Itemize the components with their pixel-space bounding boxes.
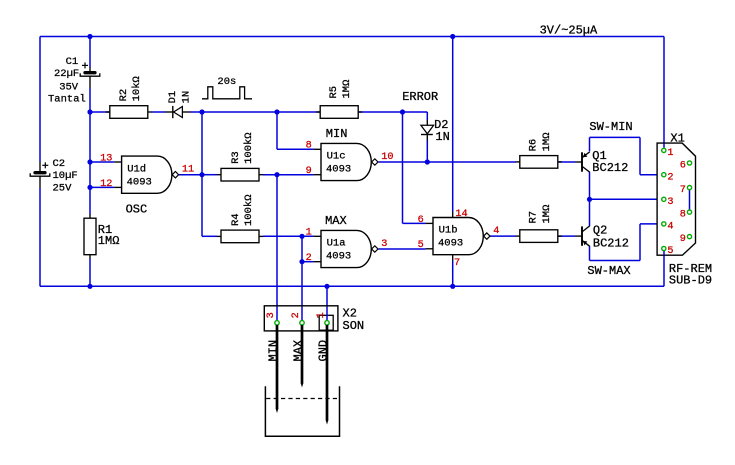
svg-text:1N: 1N: [435, 130, 449, 144]
svg-text:5: 5: [418, 240, 424, 251]
svg-text:12: 12: [100, 179, 112, 190]
svg-text:7: 7: [680, 185, 686, 196]
svg-text:5: 5: [667, 246, 673, 257]
svg-text:SW-MIN: SW-MIN: [589, 120, 632, 134]
svg-text:SON: SON: [343, 319, 365, 333]
svg-text:MIN: MIN: [326, 127, 348, 141]
svg-text:SUB-D9: SUB-D9: [669, 274, 712, 288]
svg-text:1N: 1N: [180, 91, 192, 104]
svg-text:3: 3: [381, 239, 387, 250]
svg-text:4093: 4093: [127, 176, 152, 188]
svg-text:13: 13: [100, 153, 112, 164]
svg-text:MAX: MAX: [325, 214, 347, 228]
svg-text:6: 6: [418, 215, 424, 226]
svg-text:7: 7: [454, 258, 460, 269]
svg-text:D1: D1: [167, 91, 179, 104]
svg-text:C1: C1: [66, 56, 79, 68]
svg-text:U1b: U1b: [439, 225, 458, 237]
svg-text:1: 1: [306, 228, 312, 239]
svg-text:R3: R3: [230, 151, 242, 164]
svg-text:R6: R6: [528, 139, 540, 152]
svg-text:X1: X1: [670, 132, 684, 146]
svg-text:OSC: OSC: [126, 203, 148, 217]
svg-text:3V/~25µA: 3V/~25µA: [540, 23, 598, 37]
svg-text:9: 9: [306, 166, 312, 177]
svg-text:100kΩ: 100kΩ: [243, 132, 255, 164]
svg-text:1MΩ: 1MΩ: [541, 132, 553, 151]
svg-text:4: 4: [667, 222, 673, 233]
svg-text:C2: C2: [53, 158, 66, 170]
svg-text:1MΩ: 1MΩ: [541, 205, 553, 224]
svg-text:2: 2: [667, 172, 673, 183]
svg-text:U1a: U1a: [327, 238, 346, 250]
svg-text:U1c: U1c: [327, 151, 346, 163]
svg-text:MAX: MAX: [291, 340, 305, 362]
svg-text:10: 10: [381, 152, 393, 163]
svg-text:8: 8: [680, 210, 686, 221]
svg-text:4093: 4093: [438, 238, 463, 250]
svg-text:1MΩ: 1MΩ: [341, 80, 353, 99]
svg-text:11: 11: [182, 165, 194, 176]
svg-text:20s: 20s: [217, 76, 236, 88]
svg-text:MIN: MIN: [266, 340, 280, 362]
svg-text:1: 1: [316, 312, 327, 318]
svg-text:R4: R4: [230, 213, 242, 226]
svg-text:25V: 25V: [53, 182, 73, 194]
svg-text:2: 2: [291, 312, 302, 318]
svg-text:R7: R7: [528, 211, 540, 224]
svg-text:14: 14: [455, 209, 467, 220]
svg-text:GND: GND: [316, 340, 330, 362]
svg-text:SW-MAX: SW-MAX: [587, 264, 630, 278]
svg-text:R5: R5: [328, 86, 340, 99]
svg-text:10kΩ: 10kΩ: [131, 76, 143, 101]
svg-text:8: 8: [306, 141, 312, 152]
svg-text:R2: R2: [118, 89, 130, 102]
svg-text:4: 4: [493, 226, 499, 237]
svg-text:35V: 35V: [59, 82, 79, 94]
svg-text:U1d: U1d: [127, 163, 146, 175]
svg-text:6: 6: [680, 161, 686, 172]
svg-text:3: 3: [667, 197, 673, 208]
svg-text:BC212: BC212: [593, 237, 629, 251]
svg-text:10µF: 10µF: [53, 170, 78, 182]
svg-text:1: 1: [667, 148, 673, 159]
svg-text:BC212: BC212: [592, 161, 628, 175]
svg-text:22µF: 22µF: [54, 68, 79, 80]
svg-text:4093: 4093: [326, 164, 351, 176]
svg-text:3: 3: [266, 312, 277, 318]
svg-text:ERROR: ERROR: [402, 90, 438, 104]
svg-text:9: 9: [680, 234, 686, 245]
svg-text:Tantal: Tantal: [48, 94, 86, 106]
svg-text:Q2: Q2: [593, 223, 607, 237]
svg-text:2: 2: [306, 253, 312, 264]
svg-text:4093: 4093: [326, 251, 351, 263]
svg-text:1MΩ: 1MΩ: [98, 234, 120, 248]
svg-text:100kΩ: 100kΩ: [243, 194, 255, 226]
